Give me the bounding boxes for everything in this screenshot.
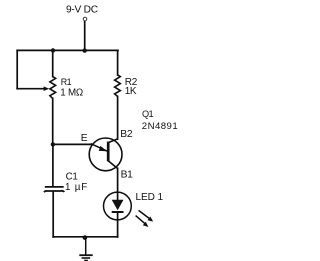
svg-text:E: E (81, 133, 88, 144)
wire LED to bottom rail (117, 212, 119, 237)
svg-text:C1: C1 (66, 172, 78, 183)
svg-text:LED 1: LED 1 (136, 192, 164, 203)
wire B1 to LED (117, 168, 119, 200)
junction ground (83, 235, 88, 240)
LED 1 emission arrow lower (136, 216, 146, 225)
resistor R2 (115, 75, 121, 97)
svg-text:R1: R1 (61, 77, 72, 87)
wire terminal to top rail (84, 22, 86, 52)
wire top rail to R1 (52, 50, 54, 76)
transistor Q1 emitter line (91, 144, 108, 152)
ground stub (85, 238, 87, 255)
terminal 9V (83, 17, 87, 21)
LED 1 body circle (104, 192, 132, 220)
ground bar 1 (79, 254, 92, 256)
transistor Q1 B1 lead (108, 161, 117, 169)
capacitor C1 bottom plate (44, 191, 64, 192)
wire top rail to R2 (117, 50, 119, 74)
ground bar 3 (84, 259, 88, 261)
wire R1 to node A (52, 98, 54, 144)
wire left rail (16, 50, 18, 88)
svg-text:1K: 1K (125, 86, 137, 97)
transistor Q1 B2 lead (108, 139, 117, 143)
wire R2 to B2 (117, 96, 119, 139)
transistor Q1 base bar (107, 142, 110, 162)
LED 1 cathode bar (112, 211, 124, 213)
arrowhead R1 wiper (44, 86, 50, 91)
ground bar 2 (82, 257, 91, 259)
wire R1 wiper arm (17, 88, 44, 90)
svg-text:1 MΩ: 1 MΩ (60, 87, 83, 98)
node A junction dot (51, 142, 55, 146)
wire node A to emitter (53, 143, 93, 145)
junction top middle (83, 48, 87, 52)
wire C1 to bottom rail (52, 192, 54, 237)
svg-text:B1: B1 (121, 170, 134, 181)
LED 1 diode triangle (112, 200, 124, 211)
wire bottom rail (53, 236, 117, 238)
transistor Q1 body circle (89, 138, 122, 171)
svg-text:1 µF: 1 µF (65, 182, 88, 193)
svg-text:9-V DC: 9-V DC (66, 4, 98, 15)
transistor Q1 emitter arrowhead (99, 146, 107, 151)
svg-text:B2: B2 (120, 129, 133, 140)
LED 1 emission arrow upper (139, 210, 150, 219)
resistor R1 (50, 77, 56, 99)
wire top rail (17, 49, 118, 51)
svg-text:Q1: Q1 (142, 109, 153, 119)
junction top left (51, 48, 55, 52)
capacitor C1 top plate (45, 186, 64, 188)
svg-text:2N4891: 2N4891 (142, 121, 178, 132)
wire node A to C1 (52, 144, 54, 186)
